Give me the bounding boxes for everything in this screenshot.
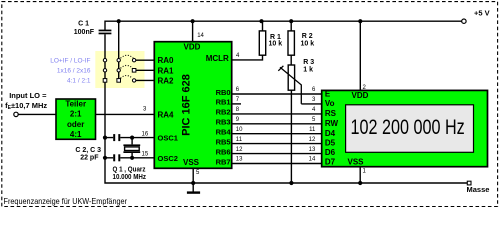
svg-text:102 200 000 Hz: 102 200 000 Hz xyxy=(350,115,464,139)
svg-text:4: 4 xyxy=(312,107,316,113)
svg-text:4:1: 4:1 xyxy=(70,130,82,139)
svg-text:RA2: RA2 xyxy=(158,76,175,85)
svg-text:8: 8 xyxy=(236,107,240,113)
svg-text:6: 6 xyxy=(312,87,316,93)
svg-text:1 k: 1 k xyxy=(303,66,313,73)
svg-text:VDD: VDD xyxy=(352,91,369,100)
svg-text:15: 15 xyxy=(142,152,149,158)
svg-text:RB1: RB1 xyxy=(216,98,231,107)
svg-text:RB6: RB6 xyxy=(216,147,231,156)
svg-text:10: 10 xyxy=(236,127,243,133)
svg-text:6: 6 xyxy=(236,87,240,93)
svg-text:5: 5 xyxy=(312,117,316,123)
svg-text:RS: RS xyxy=(325,109,337,118)
svg-text:RB0: RB0 xyxy=(216,88,231,97)
svg-text:RA4: RA4 xyxy=(158,111,175,120)
svg-text:LO+IF / LO-IF: LO+IF / LO-IF xyxy=(50,57,90,64)
svg-text:Q 1 , Quarz: Q 1 , Quarz xyxy=(113,166,146,173)
svg-text:MCLR: MCLR xyxy=(206,54,229,63)
svg-text:RB3: RB3 xyxy=(216,118,231,127)
svg-text:1: 1 xyxy=(363,169,367,175)
svg-text:14: 14 xyxy=(197,33,204,39)
svg-text:RB4: RB4 xyxy=(216,128,232,137)
svg-text:3: 3 xyxy=(312,97,316,103)
svg-text:D4: D4 xyxy=(325,129,336,138)
svg-text:10 k: 10 k xyxy=(301,40,315,47)
svg-text:10.000 MHz: 10.000 MHz xyxy=(113,174,147,181)
svg-text:Vo: Vo xyxy=(325,99,335,108)
svg-text:RB7: RB7 xyxy=(216,157,231,166)
svg-text:2:1: 2:1 xyxy=(70,110,82,119)
svg-text:C 2, C 3: C 2, C 3 xyxy=(75,147,101,154)
svg-text:16: 16 xyxy=(142,132,149,138)
svg-text:4: 4 xyxy=(236,53,240,59)
svg-text:RA0: RA0 xyxy=(158,56,175,65)
svg-text:1x16 / 2x16: 1x16 / 2x16 xyxy=(57,68,91,75)
svg-text:R 3: R 3 xyxy=(303,59,314,66)
svg-text:RB2: RB2 xyxy=(216,108,231,117)
svg-text:Teiler: Teiler xyxy=(65,100,86,109)
svg-text:7: 7 xyxy=(236,97,240,103)
svg-text:3: 3 xyxy=(143,107,147,113)
svg-text:12: 12 xyxy=(309,137,316,143)
svg-text:11: 11 xyxy=(309,127,316,133)
svg-text:22 pF: 22 pF xyxy=(80,154,99,161)
svg-text:9: 9 xyxy=(236,117,240,123)
svg-text:13: 13 xyxy=(309,147,316,153)
svg-text:D7: D7 xyxy=(325,158,336,167)
svg-text:VSS: VSS xyxy=(348,158,365,167)
svg-text:12: 12 xyxy=(236,147,243,153)
svg-text:RW: RW xyxy=(325,119,339,128)
svg-text:10 k: 10 k xyxy=(269,40,283,47)
svg-text:PIC 16F 628: PIC 16F 628 xyxy=(181,74,193,136)
svg-text:Masse: Masse xyxy=(467,185,490,194)
svg-text:RA1: RA1 xyxy=(158,66,175,75)
svg-text:VDD: VDD xyxy=(184,42,201,51)
svg-text:OSC1: OSC1 xyxy=(158,134,178,143)
svg-text:C 1: C 1 xyxy=(78,21,89,28)
svg-text:Input LO =: Input LO = xyxy=(9,91,47,100)
svg-text:oder: oder xyxy=(67,120,84,129)
svg-text:D6: D6 xyxy=(325,148,336,157)
svg-text:+5 V: +5 V xyxy=(474,8,490,17)
svg-text:14: 14 xyxy=(309,157,316,163)
svg-text:RB5: RB5 xyxy=(216,137,231,146)
svg-text:13: 13 xyxy=(236,157,243,163)
svg-text:100nF: 100nF xyxy=(74,29,95,36)
svg-text:fE±10,7 MHz: fE±10,7 MHz xyxy=(5,101,47,111)
svg-text:OSC2: OSC2 xyxy=(158,154,178,163)
svg-text:Frequenzanzeige für UKW-Empfän: Frequenzanzeige für UKW-Empfänger xyxy=(4,196,128,206)
svg-text:11: 11 xyxy=(236,137,243,143)
svg-text:D5: D5 xyxy=(325,139,336,148)
svg-text:VSS: VSS xyxy=(183,158,200,167)
svg-text:4:1 / 2:1: 4:1 / 2:1 xyxy=(67,78,91,85)
svg-text:E: E xyxy=(325,90,331,99)
svg-text:5: 5 xyxy=(196,170,200,176)
svg-text:R 2: R 2 xyxy=(302,33,313,40)
